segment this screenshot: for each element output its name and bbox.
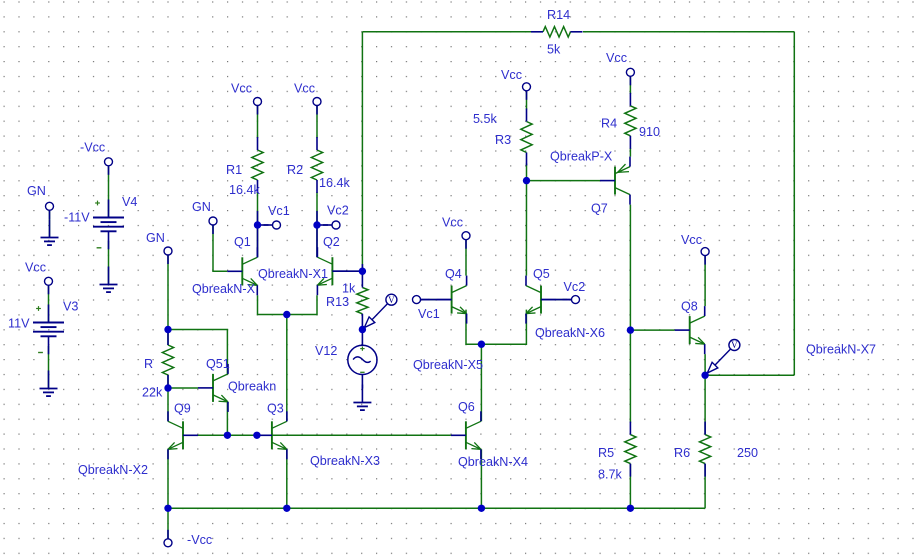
svg-text:V12: V12	[315, 344, 337, 358]
svg-text:R6: R6	[674, 446, 690, 460]
svg-text:R: R	[144, 357, 153, 371]
svg-text:-11V: -11V	[64, 211, 90, 225]
svg-text:V: V	[731, 340, 738, 350]
svg-text:QbreakN-X7: QbreakN-X7	[806, 343, 876, 357]
svg-text:Vcc: Vcc	[442, 216, 463, 230]
svg-text:22k: 22k	[142, 386, 163, 400]
svg-text:Q1: Q1	[234, 235, 251, 249]
svg-text:QbreakN-X2: QbreakN-X2	[78, 463, 148, 477]
svg-text:Q7: Q7	[591, 202, 608, 216]
svg-text:Q4: Q4	[445, 267, 462, 281]
svg-text:Q5: Q5	[533, 267, 550, 281]
svg-text:Q8: Q8	[681, 300, 698, 314]
svg-text:11V: 11V	[8, 317, 30, 331]
svg-text:QbreakN-X4: QbreakN-X4	[458, 455, 528, 469]
svg-text:Q51: Q51	[206, 357, 230, 371]
svg-text:R4: R4	[601, 117, 617, 131]
svg-text:QbreakN-X6: QbreakN-X6	[535, 326, 605, 340]
svg-text:QbreakN-X: QbreakN-X	[192, 282, 256, 296]
svg-text:16.4k: 16.4k	[319, 176, 351, 190]
svg-text:V4: V4	[122, 195, 137, 209]
svg-text:Q3: Q3	[267, 402, 284, 416]
svg-text:R5: R5	[598, 446, 614, 460]
svg-text:Vcc: Vcc	[606, 51, 627, 65]
svg-text:Vcc: Vcc	[231, 82, 252, 96]
svg-text:QbreakP-X: QbreakP-X	[550, 150, 613, 164]
svg-text:Vc2: Vc2	[564, 280, 586, 294]
svg-text:GN: GN	[146, 231, 165, 245]
svg-text:R1: R1	[226, 163, 242, 177]
svg-text:8.7k: 8.7k	[598, 468, 623, 482]
svg-text:Q2: Q2	[323, 235, 340, 249]
svg-text:250: 250	[737, 446, 758, 460]
svg-text:5.5k: 5.5k	[473, 112, 498, 126]
svg-text:Vc1: Vc1	[418, 307, 440, 321]
svg-text:Vcc: Vcc	[681, 233, 702, 247]
svg-text:R13: R13	[326, 295, 349, 309]
svg-text:GN: GN	[192, 200, 211, 214]
svg-text:GN: GN	[27, 184, 46, 198]
svg-text:R3: R3	[495, 133, 511, 147]
svg-text:-Vcc: -Vcc	[80, 141, 105, 155]
svg-text:QbreakN-X3: QbreakN-X3	[310, 454, 380, 468]
svg-text:R2: R2	[287, 163, 303, 177]
svg-text:5k: 5k	[547, 43, 561, 57]
svg-text:Vcc: Vcc	[501, 68, 522, 82]
svg-text:Vcc: Vcc	[25, 261, 46, 275]
svg-text:V3: V3	[63, 300, 78, 314]
svg-text:Vc1: Vc1	[268, 204, 290, 218]
svg-text:V: V	[388, 295, 395, 305]
svg-text:Qbreakn: Qbreakn	[228, 380, 276, 394]
svg-text:1k: 1k	[342, 282, 356, 296]
svg-text:Vcc: Vcc	[294, 82, 315, 96]
svg-text:QbreakN-X5: QbreakN-X5	[413, 358, 483, 372]
svg-text:910: 910	[639, 125, 660, 139]
svg-text:Vc2: Vc2	[327, 204, 349, 218]
svg-text:QbreakN-X1: QbreakN-X1	[258, 267, 328, 281]
svg-text:-Vcc: -Vcc	[187, 533, 212, 547]
svg-text:16.4k: 16.4k	[229, 183, 261, 197]
svg-text:R14: R14	[547, 8, 570, 22]
svg-text:Q6: Q6	[458, 400, 475, 414]
svg-text:Q9: Q9	[174, 402, 191, 416]
